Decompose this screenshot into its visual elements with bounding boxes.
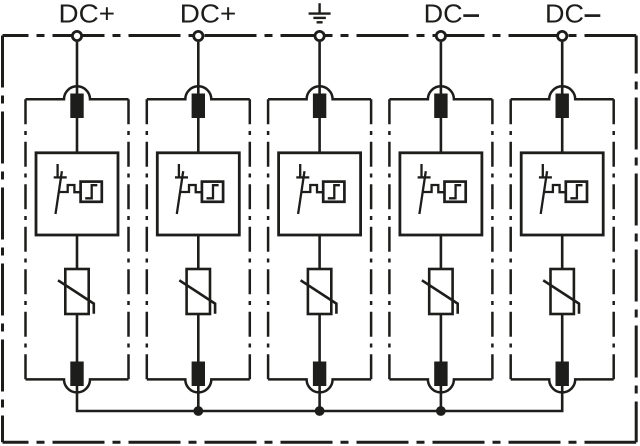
plug-in protection module boundary (branch 1, dashed box) (26, 86, 129, 392)
wire: varistor to bottom contact (branch 1) (76, 313, 79, 364)
top plug contact (branch 1, filled bar) (70, 94, 83, 119)
svg-text:DC+: DC+ (180, 0, 237, 28)
svg-text:DC: DC (545, 0, 584, 28)
bottom plug contact (branch 3, filled bar) (313, 362, 326, 387)
wire: disconnector to varistor (branch 4) (440, 234, 443, 270)
earth/ground symbol above terminal 3 (309, 3, 331, 22)
varistor (branch 3) (301, 269, 337, 314)
wire: varistor to bottom contact (branch 4) (440, 313, 443, 364)
common bottom bus wire connecting all branches (77, 385, 562, 411)
plug-in protection module boundary (branch 3, dashed box) (268, 86, 371, 392)
terminal 1 (circle on device border) (72, 31, 81, 40)
wire: varistor to bottom contact (branch 5) (561, 313, 564, 364)
wire: terminal 4 to top contact (440, 42, 443, 96)
plug-in protection module boundary (branch 5, dashed box) (511, 86, 614, 392)
junction node on bus (branch 3) (315, 406, 325, 416)
junction node on bus (branch 2) (193, 406, 203, 416)
label DC− (terminal 5) (545, 0, 600, 28)
top plug contact (branch 5, filled bar) (556, 94, 569, 119)
top plug contact (branch 2, filled bar) (192, 94, 205, 119)
wire: bottom contact to bus (branch 3) (318, 385, 321, 412)
wire: disconnector to varistor (branch 3) (318, 234, 321, 270)
device outline bottom edge (3, 441, 637, 444)
plug-in protection module boundary (branch 2, dashed box) (147, 86, 250, 392)
varistor (branch 5) (543, 269, 579, 314)
svg-text:DC+: DC+ (59, 0, 116, 28)
wire: terminal 2 to top contact (197, 42, 200, 96)
bottom plug contact (branch 4, filled bar) (434, 362, 447, 387)
bottom plug contact (branch 2, filled bar) (192, 362, 205, 387)
top plug contact (branch 3, filled bar) (313, 94, 326, 119)
junction node on bus (branch 4) (436, 406, 446, 416)
device outline top edge (dash-dot border) (3, 34, 637, 37)
wire: varistor to bottom contact (branch 2) (197, 313, 200, 364)
varistor (branch 4) (422, 269, 458, 314)
plug-in protection module boundary (branch 4, dashed box) (389, 86, 492, 392)
wire: bottom contact to bus (branch 2) (197, 385, 200, 412)
thermal disconnector with status indication (branch 3) (279, 153, 361, 235)
wire: disconnector to varistor (branch 5) (561, 234, 564, 270)
wire: terminal 5 to top contact (561, 42, 564, 96)
wire: disconnector to varistor (branch 2) (197, 234, 200, 270)
wire: top contact to disconnector (branch 2) (197, 117, 200, 154)
wire: terminal 1 to top contact (76, 42, 79, 96)
wire: terminal 3 to top contact (318, 42, 321, 96)
wire: disconnector to varistor (branch 1) (76, 234, 79, 270)
svg-text:DC: DC (424, 0, 463, 28)
thermal disconnector with status indication (branch 2) (157, 153, 239, 235)
wire: top contact to disconnector (branch 1) (76, 117, 79, 154)
thermal disconnector with status indication (branch 5) (521, 153, 603, 235)
terminal 2 (circle on device border) (194, 31, 203, 40)
varistor (branch 2) (179, 269, 215, 314)
wire: top contact to disconnector (branch 3) (318, 117, 321, 154)
top plug contact (branch 4, filled bar) (434, 94, 447, 119)
device outline left edge (1, 36, 4, 443)
wire: bottom contact to bus (branch 4) (440, 385, 443, 412)
terminal 5 (circle on device border) (558, 31, 567, 40)
wire: varistor to bottom contact (branch 3) (318, 313, 321, 364)
label DC− (terminal 4) (424, 0, 479, 28)
wire: top contact to disconnector (branch 4) (440, 117, 443, 154)
terminal 4 (circle on device border) (436, 31, 445, 40)
device outline right edge (635, 36, 638, 443)
wire: top contact to disconnector (branch 5) (561, 117, 564, 154)
thermal disconnector with status indication (branch 1) (36, 153, 118, 235)
bottom plug contact (branch 1, filled bar) (70, 362, 83, 387)
thermal disconnector with status indication (branch 4) (400, 153, 482, 235)
terminal 3 (circle on device border) (315, 31, 324, 40)
bottom plug contact (branch 5, filled bar) (556, 362, 569, 387)
varistor (branch 1) (58, 269, 94, 314)
